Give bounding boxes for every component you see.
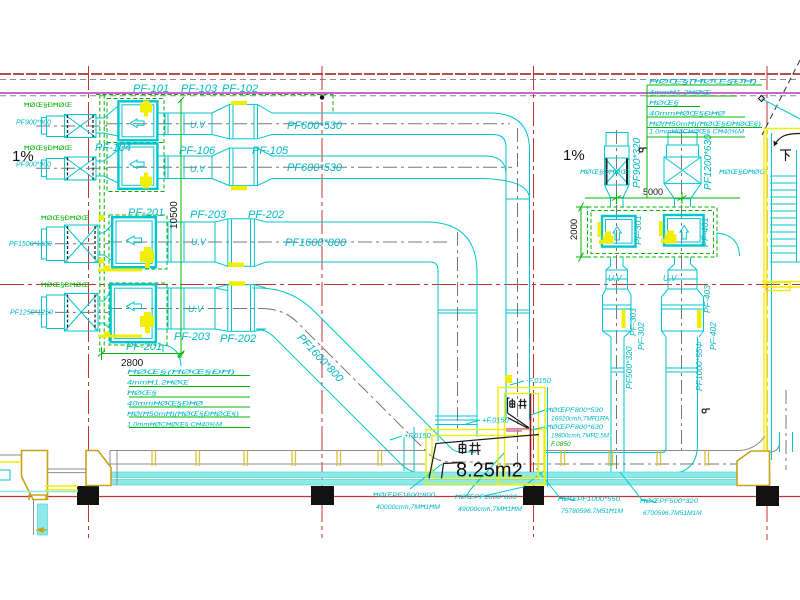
svg-text:ĦØŒ§ÐĦØŒ: ĦØŒ§ÐĦØŒ [24,145,72,152]
svg-text:5000: 5000 [643,187,663,197]
svg-text:75780596,7M51Ħ1M: 75780596,7M51Ħ1M [561,508,624,515]
wall gold bottomleft B [86,451,111,486]
ladder rungs [770,183,797,253]
column 2 [311,486,334,505]
leader F0150 left [390,436,402,440]
duct connector unit1-boxA [96,106,118,136]
duct 2 run [158,148,488,186]
svg-text:8.25m2: 8.25m2 [456,460,523,482]
joint lines lower elbow [404,427,414,471]
leader F0150 mid [466,420,480,424]
svg-text:U.V: U.V [190,164,206,174]
svg-text:40mmĦØŒ§ÐĦØ: 40mmĦØŒ§ÐĦØ [127,401,204,408]
centerline vertical duct12 [517,128,519,468]
column 1 [77,486,99,505]
stack R2 bottom elbow [546,444,698,474]
svg-text:ĦØŒ§(ĦØŒ§ÐĦ): ĦØŒ§(ĦØŒ§ÐĦ) [127,369,235,376]
wire gray dashed lower [0,95,800,97]
dim 10500 line [180,99,182,358]
motor yellow B [140,173,152,189]
wire magenta boundary [0,92,800,94]
char Xia (down) [780,150,791,161]
leader mid annotation [531,410,545,430]
door arc left room bottom [163,345,181,366]
room outline D green dashed [109,283,167,345]
centerline unit3 [30,243,108,245]
centerline unit1 [36,125,108,127]
text yanjing upper (drawn) [510,399,527,409]
beam gray line top left segment [110,451,425,465]
centerline unit4 [30,311,108,313]
louver R1 X-box [605,158,630,185]
annotation mid right block [546,407,610,440]
louver unit 4 [42,294,99,332]
svg-text:+F.0150: +F.0150 [482,416,510,425]
svg-text:4mmĦ1.2ĦØŒ: 4mmĦ1.2ĦØŒ [127,380,190,387]
diagonal cyan leader topright [762,99,800,120]
motor yellow C [98,247,154,272]
shaft yellow box lower outer [426,430,544,485]
svg-text:PF-202: PF-202 [248,209,284,221]
duct 1 run [158,104,494,138]
svg-text:ĦØŒ§ÐĦØŒ: ĦØŒ§ÐĦØŒ [719,170,768,176]
grid vertical A x=88.5 [88,66,90,538]
svg-text:ĦØŒ§ÐĦØŒ: ĦØŒ§ÐĦØŒ [24,102,72,109]
stack R2 hopper below room [668,257,697,279]
svg-text:4mmĦ1.2ĦØŒ: 4mmĦ1.2ĦØŒ [649,90,712,97]
vertical duct 3 [435,270,477,441]
centerline right stack 1 [616,130,618,476]
louver unit 1 [42,115,97,138]
beam left end cap [110,451,117,486]
centerline right stack 2 [681,130,683,452]
column 3 [523,486,544,505]
text yanjing lower (drawn) [459,442,481,456]
down arrowhead [773,141,778,147]
door arc right room [717,233,740,256]
filter cap yellow duct4 [229,281,245,286]
left small cyan bits [0,470,10,480]
wall left green dashed band [100,95,104,353]
grid horizontal bottom red y=496.5 [0,496,800,498]
louver R1 hopper [605,185,630,207]
svg-text:U.V: U.V [188,304,204,314]
motor yellow R2 [659,221,677,244]
wall yellow marks [99,215,105,264]
louver R2 X-box [664,157,701,184]
wall right stub green dashed [332,95,334,114]
svg-text:ĦØŒPF1600*800: ĦØŒPF1600*800 [373,492,435,499]
leader bottom 1 [410,464,442,489]
svg-text:40000cmh,7MĦ1ĦM: 40000cmh,7MĦ1ĦM [376,504,441,511]
louver unit 3 [42,225,99,263]
fan box A [118,101,157,140]
duct 3 elbow [426,222,477,273]
svg-text:ĦØŒPF1000*550: ĦØŒPF1000*550 [558,496,620,503]
svg-text:PF-201: PF-201 [128,207,164,219]
svg-text:ĦØ(Ħ50mĦ)(ĦØŒ§ÐĦØŒ§): ĦØ(Ħ50mĦ)(ĦØŒ§ÐĦØŒ§) [649,121,761,128]
joint yellow duct12 [505,375,512,383]
gold bracket bottom left [29,495,46,500]
svg-text:PF1250*1250: PF1250*1250 [10,310,53,317]
wire top boundary dark red dashed [0,73,800,75]
leader F0150 top [510,381,524,385]
svg-text:PF900*900: PF900*900 [16,120,51,127]
TABLES [9,79,762,429]
filter cap yellow duct3 [228,263,244,268]
svg-text:1%: 1% [563,147,585,164]
dim 10500 ticks [178,97,184,358]
spec table topright lines [647,85,762,198]
fan box R1 PF-301 [602,216,636,247]
svg-text:+F.0150: +F.0150 [404,431,432,440]
shaft yellow box upper outer [498,388,545,485]
svg-text:ĦØŒ§(ĦØŒ§ÐĦ): ĦØŒ§(ĦØŒ§ÐĦ) [649,79,757,86]
svg-text:PF-203: PF-203 [190,209,227,221]
svg-text:PF1000*55Φ: PF1000*55Φ [694,341,704,391]
svg-text:ĦØŒ§ÐĦØŒ: ĦØŒ§ÐĦØŒ [41,282,89,289]
ladder frame [770,133,800,460]
svg-text:2800: 2800 [121,358,144,369]
spec table left texts [127,369,239,429]
column 4 [756,486,779,506]
stack R2 UV section [662,279,704,450]
duct connector unit2-boxB [96,150,118,183]
flue outline lower left leg [442,463,464,479]
shaft yellow box lower inner [432,436,538,479]
fan box C [112,217,156,267]
beam joint ticks gold [152,451,709,467]
svg-text:PF-202: PF-202 [220,333,256,345]
svg-text:PF600*530: PF600*530 [287,162,343,174]
annotation bottom block1 [373,492,441,511]
svg-text:10500: 10500 [169,201,180,229]
vertical duct merged 1+2 [506,147,530,420]
yellow landing lines [762,282,800,291]
louver R2 hopper [664,184,701,207]
shaft right cyan wall [547,387,549,487]
wire gray dashed upper [0,79,800,81]
shaft small cyan strip bottom left [38,504,48,535]
svg-text:PF-104: PF-104 [95,142,131,154]
duct connector unit3-boxC [98,224,113,261]
fan box B [118,144,157,189]
RIGHTROOM [546,60,800,476]
duct connector unit4-boxD [98,291,111,330]
node marker right2 [702,409,710,413]
svg-text:ĦØŒPF800*530: ĦØŒPF800*530 [546,407,603,414]
wall gold bottomleft A [22,451,48,500]
motor yellow R1 [598,222,614,244]
louver R1 top collar [605,133,630,159]
gray wall line bottom left [33,500,35,535]
leader bottom 2 [466,452,505,497]
centerline duct4 diagonal [262,309,480,463]
svg-text:19800cmh,7MĦ2.5M: 19800cmh,7MĦ2.5M [551,433,609,440]
room right green dashed double wall [588,207,718,257]
grid vertical C x=533.5 [533,66,535,537]
grid vertical B x=322 [321,66,323,538]
filter cap yellow duct2 [231,186,247,191]
svg-text:49000cmh,7MĦ1ĦM: 49000cmh,7MĦ1ĦM [458,506,523,513]
shaft maroon edge [530,394,532,473]
svg-text:U.V: U.V [190,120,206,130]
louver R2 top collar [667,133,699,158]
leader bottom 3 [536,468,575,500]
svg-text:PF900*900: PF900*900 [16,162,51,169]
svg-text:PF-301: PF-301 [633,215,643,245]
wall top green dashed [96,94,333,96]
svg-text:PF-105: PF-105 [252,145,289,157]
spec table left lines [129,376,250,428]
duct 4 diagonal [254,288,476,452]
gray beam lines between gold walls [0,455,86,473]
dim 5000 line [585,192,740,204]
svg-text:ĦØŒ§ÐĦØŒ: ĦØŒ§ÐĦØŒ [41,215,89,222]
svg-text:PF-401: PF-401 [700,217,710,247]
svg-text:ĦØŒ§: ĦØŒ§ [127,390,158,397]
annotation bottom block2 [455,494,523,513]
svg-text:U.V: U.V [191,237,207,247]
centerline vertical duct3 [457,232,459,428]
svg-text:PF-103: PF-103 [181,83,218,95]
flue outline lower left [429,435,539,479]
slab light cyan band upper [110,472,770,478]
gold arrow bottom left [37,528,47,532]
duct 3 run [156,219,430,266]
svg-text:1.0mmĦØCĦØŒ§ CĦ40%M: 1.0mmĦØCĦØŒ§ CĦ40%M [127,422,223,429]
stack R1 hopper below room [606,257,628,279]
svg-text:PF-102: PF-102 [222,83,258,95]
svg-text:ĦØŒ§: ĦØŒ§ [649,100,680,107]
room outline C green dashed [109,215,167,269]
svg-text:PF1600*800: PF1600*800 [285,237,347,249]
beam gray line right segment [545,450,737,452]
svg-text:ĦØŒPF800*630: ĦØŒPF800*630 [546,424,603,431]
svg-text:1.0mmĦØCĦØŒ§ CĦ40%M: 1.0mmĦØCĦØŒ§ CĦ40%M [649,129,745,136]
beam right end curve [737,436,780,452]
down arrow curve [774,134,800,147]
leader bottom 4 [620,472,655,502]
right end centerline [785,390,787,470]
shaft yellow box upper inner [505,394,539,479]
svg-text:PF-203: PF-203 [174,331,211,343]
svg-text:F.0850: F.0850 [551,441,571,448]
svg-text:PF900*320: PF900*320 [632,138,643,188]
node marker right [639,148,646,152]
slab light cyan band lower [110,480,770,486]
duct 2 elbow merge [487,156,506,174]
centerline unit2 [36,167,108,169]
svg-text:PF-402: PF-402 [708,322,718,350]
wall gold bottomright [737,451,770,486]
motor yellow A [140,101,152,117]
leader bottom 5 crossing [480,470,545,497]
dim 2800 line [98,347,185,360]
fan box R2 PF-401 [664,215,704,246]
diagonal dashed black topright [762,60,800,135]
svg-text:PF-101: PF-101 [133,83,169,95]
svg-text:PF1200*630: PF1200*630 [703,134,714,190]
svg-text:PF600*530: PF600*530 [287,120,343,132]
svg-text:2000: 2000 [569,219,580,240]
annotation bottom block3 [558,496,624,515]
svg-text:PF500*320: PF500*320 [624,346,634,389]
svg-text:ĦØŒ§ÐĦØŒ: ĦØŒ§ÐĦØŒ [580,170,629,176]
svg-text:16920cmh,7MĦ1ĦA: 16920cmh,7MĦ1ĦA [551,416,610,423]
svg-text:PF-106: PF-106 [179,145,216,157]
node grid bubble at B [320,95,324,99]
stack R2 yellow tick [697,310,702,328]
svg-text:PF-201: PF-201 [126,341,162,353]
duct 1 elbow [490,113,530,150]
magenta vent lines [506,429,530,431]
dim 2000 line [576,203,587,262]
louver unit 2 [42,157,97,180]
filter cap yellow duct1 [231,101,247,105]
svg-text:ĦØ(Ħ50mĦ)(ĦØŒ§ÐĦØŒ§): ĦØ(Ħ50mĦ)(ĦØŒ§ÐĦØŒ§) [127,411,239,418]
svg-text:U.V: U.V [608,274,622,283]
annotation bottom block4 [640,498,702,517]
svg-text:PF-302: PF-302 [636,322,646,350]
svg-text:PF1500*1500: PF1500*1500 [9,241,52,248]
SHAFT [390,376,610,487]
svg-text:-F.0150: -F.0150 [526,376,552,385]
spec table topright texts [649,79,761,136]
stack R1 yellow tick [622,310,626,328]
svg-text:PF-403: PF-403 [702,285,712,313]
slab edge line far left [0,491,78,493]
svg-text:6700596,7M51M1M: 6700596,7M51M1M [643,510,702,517]
fan box D [111,284,156,342]
yellow lines bottom left [0,462,78,490]
motor yellow D [98,312,154,338]
BOTTOM [0,390,793,535]
stack R1 UV section [603,279,632,475]
grid vertical D x=767 [766,66,768,540]
stair wall yellow double [764,129,800,463]
svg-text:40mmĦØŒ§ÐĦØ: 40mmĦØŒ§ÐĦØ [649,111,726,118]
room outline AB green dashed [107,99,164,192]
flue wedge upper [508,398,530,429]
LEFTROOM [30,95,530,473]
grid horizontal mid y=284.5 [0,284,800,286]
svg-text:U.V: U.V [663,274,677,283]
duct 4 run [156,285,266,332]
right end duct stub [780,432,793,452]
